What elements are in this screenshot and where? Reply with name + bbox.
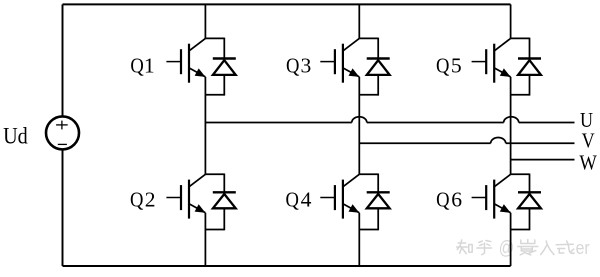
svg-text:Q: Q bbox=[286, 54, 300, 78]
svg-text:4: 4 bbox=[301, 188, 312, 212]
svg-text:@: @ bbox=[499, 236, 514, 258]
svg-text:Q: Q bbox=[130, 54, 144, 78]
svg-text:Q: Q bbox=[436, 54, 450, 78]
svg-text:6: 6 bbox=[451, 188, 462, 212]
svg-text:Q: Q bbox=[436, 188, 450, 212]
svg-text:Q: Q bbox=[286, 188, 300, 212]
svg-text:V: V bbox=[582, 129, 596, 153]
svg-text:Q: Q bbox=[130, 188, 144, 212]
svg-text:1: 1 bbox=[144, 54, 155, 78]
svg-text:3: 3 bbox=[301, 54, 312, 78]
svg-text:5: 5 bbox=[451, 54, 462, 78]
svg-text:W: W bbox=[579, 151, 597, 175]
svg-text:2: 2 bbox=[145, 188, 156, 212]
svg-text:Ud: Ud bbox=[3, 123, 28, 149]
svg-text:er: er bbox=[576, 237, 590, 259]
